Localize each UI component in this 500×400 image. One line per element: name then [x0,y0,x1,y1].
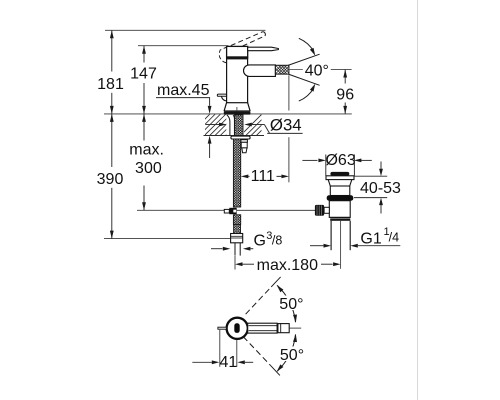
drain lower body [329,201,350,218]
braided supply hose through deck [235,115,243,136]
svg-text:181: 181 [97,76,124,93]
dashed raised lever [231,32,265,50]
svg-text:max.45: max.45 [157,82,210,99]
pop-up actuator knob [217,94,226,96]
svg-text:G: G [254,233,266,250]
top view: spout axis stub [289,327,301,329]
svg-text:111: 111 [251,168,275,185]
mounting stud and nut [241,140,248,143]
solid lever [248,47,279,51]
top view: spout [248,323,277,333]
head dark bottom band [226,56,248,59]
shank tube in deck hole [227,115,230,135]
deck bottom line [204,135,265,137]
cartridge head [227,46,248,58]
svg-text:50°: 50° [280,347,304,364]
svg-text:Ø63: Ø63 [325,152,355,169]
svg-text:/8: /8 [272,234,282,248]
label 50deg lower [278,347,307,362]
dimension G3/8 [211,248,223,250]
extension line top of head (147 ref) [138,45,228,47]
top view: dashed 50deg line upper [246,287,272,314]
drain neck taper [328,180,352,186]
spout [244,65,276,77]
dimension 111 [241,175,249,179]
dimension line 181/390 [111,30,113,238]
faucet body [227,59,248,103]
braided hose below deck [233,139,240,207]
svg-text:40°: 40° [305,63,329,80]
faint page separator line [417,0,419,400]
top view: faucet body circle [227,318,248,339]
390 bottom extension line [104,238,233,240]
svg-text:390: 390 [97,171,124,188]
drain flange [326,176,354,180]
centre line through base [236,107,238,121]
top view: lever cross-section [234,323,239,333]
pop-up rod clamp [224,209,229,213]
deck hatch left [188,114,247,136]
base taper [224,103,250,111]
svg-text:Ø34: Ø34 [270,115,302,134]
40 degree arc arrows [299,38,314,51]
G3/8 connector nut [231,234,243,243]
extension line top of raised lever (181 ref) [105,29,266,31]
svg-text:G1: G1 [360,230,381,247]
dimension 96 [344,70,346,84]
deck surface extension line [104,113,352,115]
dimension 40-53 [354,175,387,177]
label 50deg upper [277,296,306,311]
drain O-ring seal [327,195,354,200]
svg-text:96: 96 [336,86,354,103]
40 degree swivel lines [288,54,320,65]
top view: dashed 50deg line lower [243,337,270,366]
tailpipe centre line [340,221,342,269]
svg-text:max.: max. [129,142,164,159]
dimension max.180 [234,256,236,270]
raised lever tip cap [263,32,266,36]
horseshoe washer [231,136,250,139]
dashed rotated head hint right [239,52,244,58]
spout axis stubs [289,69,303,71]
max.300 bottom extension line / pop-up rod left [137,209,224,211]
top view: pop-up rod [218,327,227,329]
deck hatch right [240,114,283,136]
drain tailpipe [330,221,332,250]
drain lever knurled knob [315,205,324,216]
pop-up rod to drain [237,209,316,211]
braided hose lower section [233,215,240,225]
dashed rotated head hint left [219,47,227,63]
aerator [275,65,289,74]
dimension line 147/max300 [143,46,145,211]
drain upper body [330,186,350,196]
svg-text:40-53: 40-53 [360,180,401,197]
vertical extension line from aerator [288,75,290,110]
drain pop-up plug knob [330,172,349,176]
dimension Ø34 [206,124,219,126]
drain coupling [330,216,350,218]
svg-text:147: 147 [130,66,157,83]
dimension G1 1/4 [310,245,323,247]
svg-text:50°: 50° [279,296,303,313]
connection tube end [234,243,236,256]
base dark ring [224,111,251,114]
svg-text:/4: /4 [389,231,399,245]
top view: lower 50deg arc with arrows [277,334,295,371]
top view: upper 50deg arc with arrows [277,285,295,322]
dimension Ø63 [302,159,317,161]
top view: aerator [278,324,289,333]
dimension 41 [219,330,221,367]
svg-text:max.180: max.180 [257,257,318,274]
svg-text:300: 300 [135,160,162,177]
svg-text:41: 41 [220,354,238,371]
